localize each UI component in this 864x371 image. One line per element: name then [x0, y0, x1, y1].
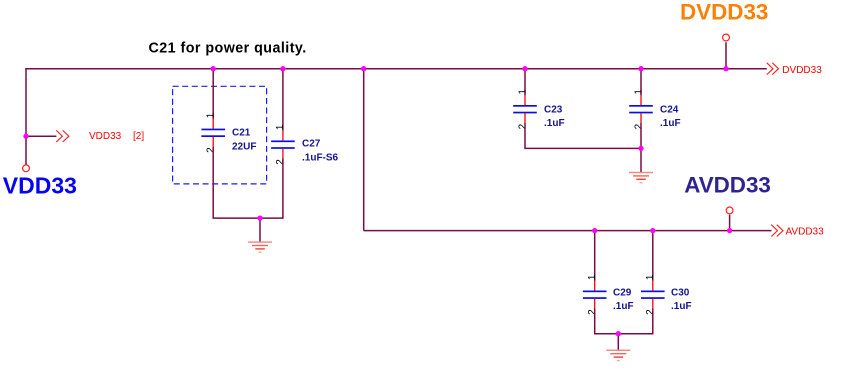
pin number 2 of C27: [275, 159, 286, 165]
svg-text:AVDD33: AVDD33: [684, 173, 771, 198]
svg-text:1: 1: [275, 124, 286, 130]
wire: AVDD33 rail (horizontal): [364, 230, 772, 232]
svg-text:1: 1: [645, 274, 656, 280]
pin number 2 of C29: [587, 309, 598, 315]
svg-text:1: 1: [517, 89, 528, 95]
pin number 2 of C30: [645, 309, 656, 315]
svg-text:C24: C24: [660, 104, 679, 115]
capacitor C23: [513, 95, 537, 123]
wire: AVDD33 circle stem: [729, 215, 731, 231]
port terminal circle DVDD33: [723, 34, 730, 41]
power label VDD33: [3, 172, 77, 198]
note: C21 for power quality.: [149, 40, 307, 56]
off-page connector arrow VDD33: [56, 130, 69, 142]
node: junction AVDD33 circle at rail: [727, 228, 732, 233]
svg-text:1: 1: [206, 112, 217, 118]
svg-text:C30: C30: [671, 287, 690, 298]
wire: C21 lower: [212, 147, 214, 219]
pin number 2 of C24: [633, 123, 644, 129]
svg-text:2: 2: [633, 123, 644, 129]
port terminal circle AVDD33: [726, 207, 733, 214]
node: junction C23 at rail: [522, 66, 527, 71]
pin number 1 of C24: [633, 89, 644, 95]
pin number 2 of C23: [517, 123, 528, 129]
wire: main DVDD33 rail (horizontal): [25, 68, 767, 70]
svg-text:.1uF: .1uF: [660, 118, 681, 129]
node: junction C24 at rail: [638, 66, 643, 71]
node: junction at ground tap (C23/C24): [638, 146, 643, 151]
wire: ground stem (C23/C24): [640, 148, 642, 172]
ground symbol (C23/C24): [629, 172, 653, 184]
wire: C21 upper: [212, 69, 214, 119]
pin number 1 of C23: [517, 89, 528, 95]
svg-text:C29: C29: [613, 287, 632, 298]
label C23 .1uF: [544, 104, 565, 129]
svg-text:DVDD33: DVDD33: [782, 65, 822, 76]
wire: bottom bus C23-C24: [524, 147, 641, 149]
wire: ground stem (C21/C27): [259, 218, 261, 242]
svg-text:.1uF: .1uF: [544, 118, 565, 129]
net label VDD33 [2]: [89, 131, 144, 142]
port terminal circle VDD33: [23, 165, 30, 172]
capacitor C24: [629, 95, 653, 123]
off-page connector arrow AVDD33: [771, 225, 783, 237]
wire: bottom bus C21-C27: [213, 217, 284, 219]
svg-text:VDD33: VDD33: [89, 131, 122, 142]
wire: C29 lower: [594, 309, 596, 334]
svg-text:2: 2: [275, 159, 286, 165]
wire: DVDD33 circle stem: [725, 42, 727, 68]
wire: C24 upper: [640, 69, 642, 96]
svg-text:2: 2: [587, 309, 598, 315]
capacitor C27: [271, 131, 295, 159]
pin number 2 of C21: [206, 147, 217, 153]
wire: C30 lower: [652, 309, 654, 334]
wire: AVDD33 vertical branch: [363, 69, 365, 231]
svg-text:.1uF-S6: .1uF-S6: [302, 153, 339, 164]
wire: C23 upper: [524, 69, 526, 96]
label C27 .1uF-S6: [302, 138, 339, 163]
node: junction at ground tap (C21/C27): [257, 215, 262, 220]
node: junction C30 at AVDD33 rail: [650, 228, 655, 233]
node: junction C21 at rail: [211, 66, 216, 71]
power label DVDD33: [680, 0, 768, 25]
svg-text:C21: C21: [232, 128, 251, 139]
node: junction C29 at AVDD33 rail: [592, 228, 597, 233]
svg-text:[2]: [2]: [133, 131, 144, 142]
wire: C24 lower: [640, 123, 642, 148]
net label AVDD33: [786, 226, 825, 237]
capacitor C30: [641, 281, 665, 309]
svg-text:2: 2: [645, 309, 656, 315]
wire: C30 upper: [652, 231, 654, 281]
net label DVDD33: [782, 65, 822, 76]
capacitor C21: [201, 119, 225, 147]
capacitor C29: [583, 281, 607, 309]
wire: C29 upper: [594, 231, 596, 281]
wire: ground stem (C29/C30): [617, 334, 619, 350]
label C29 .1uF: [613, 287, 634, 312]
label C24 .1uF: [660, 104, 681, 129]
svg-text:22UF: 22UF: [232, 141, 256, 152]
wire: left vertical drop to VDD33 port: [25, 68, 27, 165]
power label AVDD33: [684, 173, 771, 198]
svg-text:VDD33: VDD33: [3, 172, 77, 198]
label C30 .1uF: [671, 287, 692, 312]
wire: C27 upper: [282, 69, 284, 131]
svg-text:C23: C23: [544, 104, 563, 115]
node: junction at VDD33 stub: [23, 134, 28, 139]
svg-text:1: 1: [587, 274, 598, 280]
wire: bottom bus C29-C30: [594, 333, 654, 335]
pin number 1 of C27: [275, 124, 286, 130]
wire: VDD33 stub to off-page arrow: [26, 135, 56, 137]
label C21 22UF: [232, 128, 256, 153]
off-page connector arrow DVDD33: [767, 63, 779, 75]
pin number 1 of C30: [645, 274, 656, 280]
node: junction DVDD33 at rail: [723, 66, 728, 71]
pin number 1 of C21: [206, 112, 217, 118]
svg-text:2: 2: [206, 147, 217, 153]
node: junction C27 at rail: [280, 66, 285, 71]
ground symbol (C29/C30): [606, 350, 630, 362]
pin number 1 of C29: [587, 274, 598, 280]
svg-text:DVDD33: DVDD33: [680, 0, 768, 25]
svg-text:1: 1: [633, 89, 644, 95]
svg-text:C21 for power quality.: C21 for power quality.: [149, 40, 307, 56]
dashed emphasis box around C21: [173, 86, 267, 184]
svg-text:2: 2: [517, 123, 528, 129]
svg-text:.1uF: .1uF: [613, 301, 634, 312]
node: junction at ground tap (C29/C30): [616, 331, 621, 336]
wire: C23 lower: [524, 123, 526, 148]
ground symbol (C21/C27): [248, 241, 272, 253]
svg-text:.1uF: .1uF: [671, 301, 692, 312]
svg-text:C27: C27: [302, 138, 321, 149]
node: junction AVDD33 branch at rail: [361, 66, 366, 71]
svg-text:AVDD33: AVDD33: [786, 226, 825, 237]
wire: C27 lower: [282, 158, 284, 218]
